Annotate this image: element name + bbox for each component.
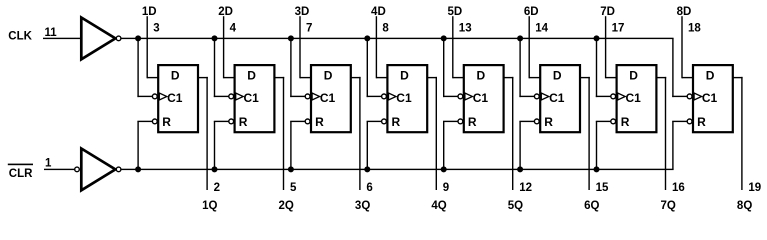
svg-text:D: D [400, 68, 409, 82]
wire 4D input [376, 16, 389, 78]
bubble FF8 R [687, 119, 692, 124]
bubble FF4 C1 [382, 94, 387, 99]
inverter U1 (CLK buffer) [81, 18, 115, 60]
svg-text:R: R [544, 115, 553, 129]
svg-text:11: 11 [45, 27, 58, 39]
flip-flop FF5 box [464, 65, 504, 132]
wire FF6 R [519, 121, 534, 170]
bubble FF2 R [229, 119, 234, 124]
bubble U2 input [75, 167, 80, 172]
svg-text:4D: 4D [371, 6, 386, 18]
svg-text:7D: 7D [600, 6, 615, 18]
junction CLK rail / FF3 C1 [288, 35, 294, 41]
junction CLR rail / FF2 R [212, 166, 218, 172]
svg-text:D: D [247, 68, 256, 82]
wire FF2 R [214, 121, 229, 170]
junction CLR rail / FF3 R [288, 166, 294, 172]
svg-text:6: 6 [366, 182, 372, 194]
svg-text:D: D [706, 68, 715, 82]
wire 3D input [299, 16, 312, 78]
wire 6D input [529, 16, 542, 78]
wire 5D input [452, 16, 465, 78]
svg-text:C1: C1 [702, 91, 718, 105]
svg-text:2: 2 [214, 182, 220, 194]
input label CLR (overline) [8, 164, 33, 166]
junction CLK rail / FF7 C1 [594, 35, 600, 41]
wire CLK rail [121, 38, 673, 39]
junction CLK rail / FF4 C1 [364, 35, 370, 41]
junction CLR rail / FF6 R [517, 166, 523, 172]
wire FF2 C1 [214, 38, 229, 97]
svg-text:R: R [392, 115, 401, 129]
svg-text:R: R [468, 115, 477, 129]
edge indicator FF6 C1 [541, 93, 549, 100]
svg-text:CLR: CLR [9, 168, 33, 180]
wire FF6 C1 [519, 38, 534, 97]
wire FF8 Q output [733, 77, 743, 190]
bubble FF7 C1 [611, 94, 616, 99]
junction CLR rail / FF1 R [135, 166, 141, 172]
wire FF1 Q output [198, 77, 208, 190]
junction CLK rail / FF6 C1 [517, 35, 523, 41]
junction CLK rail / FF5 C1 [441, 35, 447, 41]
flip-flop FF3 box [311, 65, 351, 132]
wire FF4 R [367, 121, 382, 170]
wire 7D input [605, 16, 618, 78]
bubble FF3 C1 [305, 94, 310, 99]
svg-text:6D: 6D [524, 6, 539, 18]
wire FF3 R [290, 121, 305, 170]
edge indicator FF5 C1 [465, 93, 473, 100]
svg-text:1Q: 1Q [202, 200, 217, 212]
svg-text:D: D [477, 68, 486, 82]
wire FF1 C1 [137, 38, 152, 97]
svg-text:C1: C1 [473, 91, 489, 105]
edge indicator FF1 C1 [159, 93, 167, 100]
svg-text:15: 15 [596, 182, 609, 194]
svg-text:5: 5 [290, 182, 297, 194]
bubble FF2 C1 [229, 94, 234, 99]
wire 8D input [681, 16, 694, 78]
svg-text:3Q: 3Q [355, 200, 370, 212]
flip-flop FF8 box [693, 65, 733, 132]
svg-text:8Q: 8Q [737, 200, 752, 212]
svg-text:2D: 2D [218, 6, 233, 18]
svg-text:5Q: 5Q [508, 200, 523, 212]
bubble FF6 R [534, 119, 539, 124]
bubble FF4 R [382, 119, 387, 124]
svg-text:C1: C1 [549, 91, 565, 105]
wire FF2 Q output [275, 77, 285, 190]
svg-text:2Q: 2Q [279, 200, 294, 212]
svg-text:7Q: 7Q [661, 200, 676, 212]
edge indicator FF8 C1 [694, 93, 702, 100]
wire FF3 C1 [290, 38, 305, 97]
wire 1D input [147, 16, 160, 78]
svg-text:CLK: CLK [8, 30, 32, 42]
bubble FF5 R [458, 119, 463, 124]
svg-text:R: R [162, 115, 171, 129]
svg-text:D: D [324, 68, 333, 82]
edge indicator FF2 C1 [236, 93, 244, 100]
svg-text:18: 18 [688, 23, 701, 35]
svg-text:R: R [697, 115, 706, 129]
svg-text:9: 9 [443, 182, 449, 194]
svg-text:R: R [621, 115, 630, 129]
bubble FF6 C1 [534, 94, 539, 99]
junction CLR rail / FF7 R [594, 166, 600, 172]
wire CLR rail [121, 169, 673, 170]
flip-flop FF6 box [540, 65, 580, 132]
svg-text:R: R [315, 115, 324, 129]
svg-text:C1: C1 [626, 91, 642, 105]
svg-text:19: 19 [748, 182, 761, 194]
flip-flop FF2 box [235, 65, 275, 132]
svg-text:6Q: 6Q [584, 200, 599, 212]
flip-flop FF4 box [387, 65, 427, 132]
svg-text:C1: C1 [167, 91, 183, 105]
edge indicator FF3 C1 [312, 93, 320, 100]
junction CLR rail / FF4 R [364, 166, 370, 172]
svg-text:D: D [171, 68, 180, 82]
svg-text:3: 3 [153, 23, 159, 35]
wire FF3 Q output [351, 77, 361, 190]
bubble FF1 R [152, 119, 157, 124]
svg-text:16: 16 [672, 182, 685, 194]
junction CLR rail / FF5 R [441, 166, 447, 172]
bubble FF1 C1 [152, 94, 157, 99]
inverter U2 (CLR buffer) [81, 149, 115, 191]
edge indicator FF7 C1 [618, 93, 626, 100]
flip-flop FF7 box [617, 65, 657, 132]
bubble FF7 R [611, 119, 616, 124]
wire FF6 Q output [580, 77, 590, 190]
svg-text:12: 12 [519, 182, 532, 194]
svg-text:13: 13 [459, 23, 472, 35]
svg-text:7: 7 [306, 23, 312, 35]
junction CLK rail / FF2 C1 [212, 35, 218, 41]
svg-text:5D: 5D [447, 6, 462, 18]
svg-text:D: D [629, 68, 638, 82]
wire FF8 R [672, 121, 687, 170]
wire FF7 Q output [657, 77, 667, 190]
flip-flop FF1 box [158, 65, 198, 132]
wire CLK input [43, 38, 83, 39]
wire CLR input [44, 169, 75, 170]
wire FF4 C1 [367, 38, 382, 97]
svg-text:14: 14 [535, 23, 548, 35]
wire FF7 R [596, 121, 611, 170]
wire FF1 R [137, 121, 152, 170]
bubble FF8 C1 [687, 94, 692, 99]
edge indicator FF4 C1 [389, 93, 397, 100]
svg-text:4: 4 [230, 23, 237, 35]
bubble FF5 C1 [458, 94, 463, 99]
svg-text:C1: C1 [320, 91, 336, 105]
bubble U1 output [116, 36, 121, 41]
svg-text:17: 17 [612, 23, 625, 35]
bubble FF3 R [305, 119, 310, 124]
svg-text:8: 8 [382, 23, 389, 35]
junction CLK rail / FF1 C1 [135, 35, 141, 41]
svg-text:1D: 1D [142, 6, 157, 18]
svg-text:C1: C1 [244, 91, 260, 105]
bubble U2 output [116, 167, 121, 172]
svg-text:R: R [239, 115, 248, 129]
wire FF8 C1 [672, 38, 687, 97]
wire 2D input [223, 16, 236, 78]
svg-text:C1: C1 [396, 91, 412, 105]
svg-text:D: D [553, 68, 562, 82]
svg-text:1: 1 [45, 158, 52, 170]
svg-text:8D: 8D [677, 6, 692, 18]
wire FF4 Q output [427, 77, 437, 190]
wire FF5 Q output [504, 77, 514, 190]
svg-text:3D: 3D [295, 6, 310, 18]
svg-text:4Q: 4Q [431, 200, 446, 212]
wire FF5 C1 [443, 38, 458, 97]
wire FF7 C1 [596, 38, 611, 97]
wire FF5 R [443, 121, 458, 170]
